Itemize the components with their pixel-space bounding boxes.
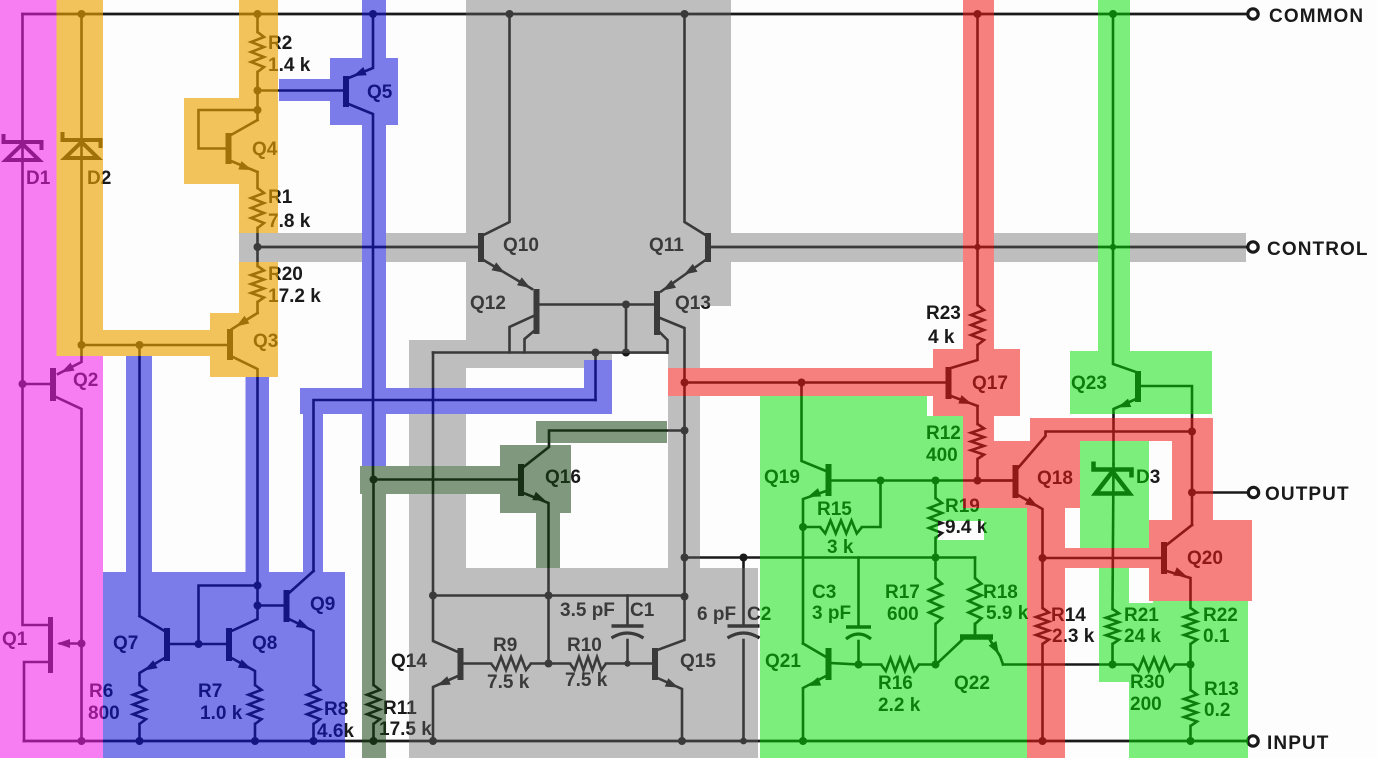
node Q5 base junction <box>254 87 262 95</box>
transistor Q12 dual collector <box>534 289 540 334</box>
resistor R14 2.3 k <box>1041 558 1044 608</box>
node Q16 collector to Q13 column <box>681 427 689 435</box>
transistor Q15 <box>652 648 658 680</box>
resistor R1 7.8 k <box>256 172 259 188</box>
wire Q13 column to Q15 collector <box>683 383 686 597</box>
transistor Q4 diode-connected <box>256 91 259 121</box>
node R14 to INPUT rail <box>1039 737 1047 745</box>
transistor Q2 <box>58 345 82 374</box>
resistor R11 17.5 k <box>372 480 375 686</box>
resistor R17 600 <box>934 558 937 579</box>
svg-text:4 k: 4 k <box>928 327 955 348</box>
wire Q23 collector column from COMMON <box>1113 14 1136 372</box>
wire output column <box>1191 432 1194 526</box>
wire blue feedback line to Q9 collector <box>314 400 596 571</box>
svg-text:CONTROL: CONTROL <box>1267 239 1369 260</box>
node Q19 base drop junction <box>798 379 806 387</box>
capacitor C2 6 pF <box>740 554 748 562</box>
svg-text:COMMON: COMMON <box>1269 6 1364 27</box>
transistor Q10 <box>478 233 484 262</box>
node Q7 collector column junction <box>136 341 144 349</box>
node R15 left junction <box>799 523 807 531</box>
wire COMMON top rail <box>23 13 1248 16</box>
resistor R2 1.4 k <box>256 14 259 32</box>
node R15/collector junction <box>877 477 885 485</box>
node Q10 collector to COMMON <box>506 10 514 18</box>
resistor R30 200 <box>1113 663 1134 666</box>
node Q9 base junction <box>254 602 262 610</box>
svg-text:INPUT: INPUT <box>1267 733 1330 754</box>
node Q15 collector junction <box>681 593 689 601</box>
resistor R20 17.2 k <box>256 247 259 266</box>
transistor Q17 <box>946 367 952 399</box>
transistor Q3 <box>232 313 258 329</box>
node Q3 column loop junction <box>254 582 262 590</box>
node Q16 base junction <box>370 476 378 484</box>
resistor R12 400 <box>976 406 979 424</box>
wire to OUTPUT terminal <box>1192 491 1248 494</box>
transistor Q7 <box>164 628 170 661</box>
node R6 to INPUT rail <box>136 737 144 745</box>
node R21/R30 junction <box>1109 661 1117 669</box>
node Q21 emitter to INPUT rail <box>799 737 807 745</box>
wire Q12/Q13 collector bus <box>433 351 668 354</box>
node Q15 emitter to INPUT rail <box>678 737 686 745</box>
node R9/R10 junction <box>545 660 553 668</box>
resistor R7 1.0 k <box>249 685 262 724</box>
svg-text:OUTPUT: OUTPUT <box>1265 484 1350 505</box>
node R30/R22/R13 junction <box>1187 661 1195 669</box>
zener D3 <box>1113 464 1114 609</box>
svg-text:R23: R23 <box>926 303 961 324</box>
resistor R8 4.6k <box>307 685 320 724</box>
node Q16 emitter junction <box>545 592 553 600</box>
transistor Q22 <box>960 634 993 640</box>
wire gray column from bus to Q14 <box>432 353 435 596</box>
transistor Q18 <box>978 479 1014 482</box>
terminal OUTPUT <box>1248 487 1258 497</box>
node R19 top junction <box>932 477 940 485</box>
wire base loop to Q3 collector column <box>199 586 258 645</box>
resistor R23 4 k <box>976 14 979 305</box>
node D2 top <box>78 10 86 18</box>
transistor Q20 <box>1161 542 1167 574</box>
node Q14 emitter to INPUT rail <box>429 737 437 745</box>
resistor R13 0.2 <box>1189 665 1192 691</box>
wire Q17 base line <box>685 381 946 384</box>
transistor Q5 <box>258 89 344 92</box>
transistor Q19 <box>802 383 827 472</box>
JFET Q1 <box>48 617 53 673</box>
transistor Q16 <box>373 478 519 481</box>
wire Q3 base line <box>82 344 228 347</box>
transistor Q9 <box>258 604 285 607</box>
transistor Q13 dual collector <box>654 291 660 335</box>
zener D2 <box>63 132 101 148</box>
wire CONTROL rail right segment <box>711 246 1247 249</box>
node Q1 gate junction <box>78 640 86 648</box>
wire D2 column from COMMON <box>80 14 83 345</box>
wire Q20 base line <box>1043 557 1161 560</box>
terminal INPUT <box>1248 736 1258 746</box>
node Q18 collector junction <box>1188 428 1196 436</box>
node CONTROL junction at R1/R20 <box>254 243 262 251</box>
wire INPUT bottom rail <box>24 740 1247 743</box>
node R13 to INPUT rail <box>1187 737 1195 745</box>
node R8 to INPUT rail <box>310 737 318 745</box>
node bus junction to base rail <box>622 349 630 357</box>
node Q7/Q8 base junction <box>195 640 203 648</box>
zener D1 <box>4 134 42 150</box>
wire left column from COMMON to D1 <box>23 14 50 625</box>
node C3 bottom junction <box>855 661 863 669</box>
node red column CONTROL crossing <box>974 244 980 250</box>
transistor Q8 diode-connected <box>226 628 232 661</box>
node Q2 collector to INPUT rail <box>78 737 86 745</box>
capacitor C1 3.5 pF <box>626 596 629 627</box>
resistor R9 7.5 k <box>463 662 491 665</box>
wire blue column to Q7 collector <box>138 345 141 616</box>
resistor R18 5.9 k <box>974 558 977 579</box>
node R19 bottom junction <box>932 554 940 562</box>
resistor R19 9.4 k <box>934 481 937 499</box>
transistor Q11 <box>705 233 711 262</box>
node R12/Q18 base junction <box>974 477 982 485</box>
transistor Q21 <box>803 644 826 658</box>
node Q4 base-collector junction <box>254 106 262 114</box>
resistor R6 800 <box>133 685 146 724</box>
terminal COMMON <box>1248 9 1258 19</box>
node R2 top <box>254 10 262 18</box>
terminal CONTROL <box>1248 242 1258 252</box>
resistor R16 2.2 k <box>859 663 882 666</box>
node D2 bottom junction <box>78 341 86 349</box>
transistor Q14 <box>433 596 458 653</box>
wire CONTROL rail left segment <box>258 246 479 249</box>
node Q14 collector junction <box>429 592 437 600</box>
resistor R15 3 k <box>803 526 820 529</box>
node compensation line junction <box>681 554 689 562</box>
wire Q22 emitter line <box>1003 663 1113 666</box>
node Q2 base junction <box>19 380 27 388</box>
node R17 bottom junction <box>932 661 940 669</box>
node bus junction to feedback line <box>592 349 600 357</box>
resistor R10 7.5 k <box>549 662 571 665</box>
node Q20 base junction <box>1039 554 1047 562</box>
wire Q14-Q15 collector line <box>433 594 685 597</box>
node base rail junction <box>622 301 630 309</box>
node Q13 collector red junction <box>681 379 689 387</box>
capacitor C3 3 pF <box>857 558 860 628</box>
wire compensation line <box>685 556 976 559</box>
node OUTPUT junction <box>1188 489 1196 497</box>
node R23 to COMMON <box>974 10 982 18</box>
node Q23 column to COMMON <box>1109 10 1117 18</box>
node green column CONTROL crossing <box>1110 244 1116 250</box>
node R7 to INPUT rail <box>251 737 259 745</box>
node Q11 collector to COMMON <box>681 10 689 18</box>
node R11 to INPUT rail <box>370 737 378 745</box>
transistor Q23 <box>1135 371 1141 402</box>
wire feedback drop to blue line <box>594 353 597 401</box>
resistor R21 24 k <box>1106 609 1119 644</box>
node Q5 emitter to COMMON <box>369 10 377 18</box>
resistor R22 0.1 <box>1184 608 1197 644</box>
